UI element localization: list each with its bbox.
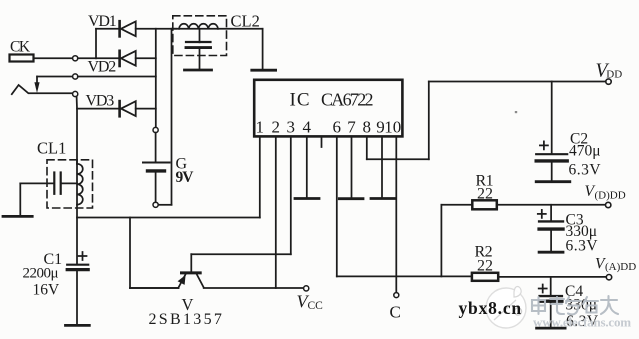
svg-text:CA6722: CA6722 — [321, 90, 373, 110]
svg-text:1: 1 — [256, 118, 265, 137]
svg-text:VD2: VD2 — [88, 59, 117, 76]
svg-text:6.3V: 6.3V — [566, 238, 599, 255]
svg-text:22: 22 — [477, 186, 493, 203]
svg-text:4: 4 — [303, 118, 312, 137]
svg-text:CL2: CL2 — [231, 12, 260, 31]
svg-text:3: 3 — [287, 118, 296, 137]
svg-text:10: 10 — [384, 118, 401, 137]
svg-text:CC: CC — [308, 300, 324, 312]
svg-text:www.elecfans.com: www.elecfans.com — [533, 315, 631, 330]
svg-text:7: 7 — [347, 118, 356, 137]
svg-text:2200μ: 2200μ — [23, 266, 59, 282]
svg-text:9V: 9V — [176, 169, 195, 186]
svg-text:DD: DD — [606, 68, 622, 80]
svg-text:C: C — [390, 303, 401, 322]
svg-text:2: 2 — [272, 118, 281, 137]
svg-text:16V: 16V — [33, 282, 61, 299]
svg-text:470μ: 470μ — [569, 143, 601, 160]
svg-text:(D)DD: (D)DD — [595, 190, 626, 202]
svg-text:6.3V: 6.3V — [569, 162, 602, 179]
svg-text:CL1: CL1 — [37, 139, 66, 158]
svg-text:6: 6 — [333, 118, 342, 137]
svg-text:(A)DD: (A)DD — [605, 261, 636, 273]
svg-text:ybx8.cn: ybx8.cn — [459, 298, 522, 318]
svg-text:VD3: VD3 — [86, 93, 115, 110]
svg-text:VD1: VD1 — [88, 13, 117, 30]
svg-text:8: 8 — [363, 118, 372, 137]
svg-text:IC: IC — [290, 90, 311, 111]
svg-text:2SB1357: 2SB1357 — [149, 311, 225, 328]
svg-text:22: 22 — [477, 258, 493, 275]
svg-text:CK: CK — [10, 39, 31, 56]
